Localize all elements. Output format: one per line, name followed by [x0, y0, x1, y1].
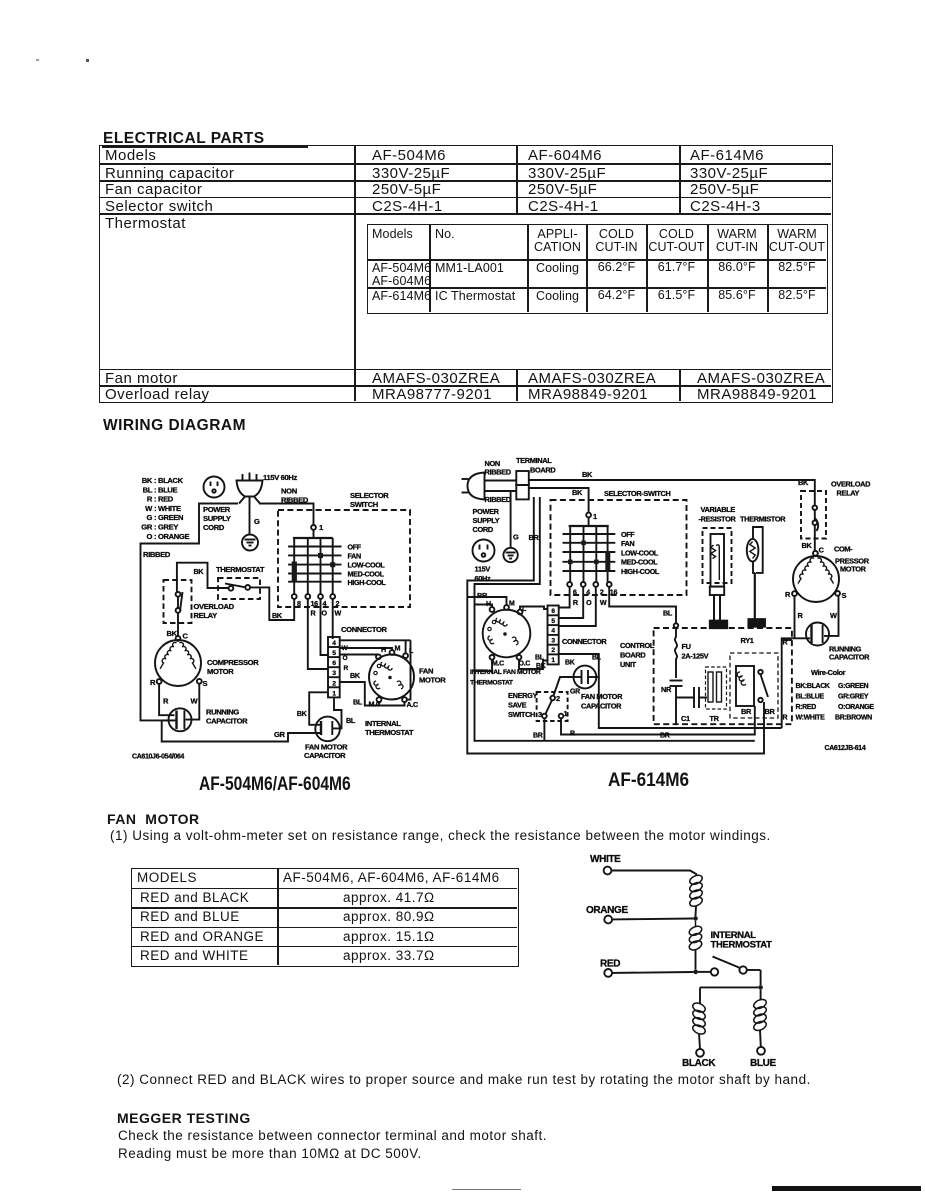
WIRING DIAGRAM heading — [103, 417, 246, 435]
svg-text:OVERLOAD: OVERLOAD — [831, 480, 871, 489]
wire plug to ground — [510, 491, 512, 548]
wire thermistor/board to R bus — [782, 639, 792, 641]
svg-text:BK: BK — [142, 476, 153, 485]
svg-text:: BLUE: : BLUE — [154, 485, 177, 494]
svg-text:CAPACITOR: CAPACITOR — [581, 702, 622, 711]
svg-text:GR:GREY: GR:GREY — [838, 694, 869, 701]
svg-text:BK: BK — [582, 470, 593, 479]
wire connector BK to M.C and A.C — [340, 682, 405, 706]
svg-text:LOW-COOL: LOW-COOL — [621, 548, 659, 557]
thermostat switch contacts — [229, 586, 234, 591]
svg-text:MOTOR: MOTOR — [840, 565, 867, 574]
svg-text:W: W — [600, 598, 607, 607]
selector switch dashed box — [278, 510, 410, 607]
fuse FU — [675, 628, 677, 663]
bottom grey wire to fan motor capacitor — [162, 720, 321, 741]
svg-text:-RESISTOR: -RESISTOR — [699, 515, 737, 524]
capacitor C1 — [677, 687, 708, 708]
svg-text:HIGH-COOL: HIGH-COOL — [348, 578, 387, 587]
svg-text:WHITE: WHITE — [590, 854, 621, 865]
svg-text:3: 3 — [551, 637, 555, 644]
svg-text:RIBBED: RIBBED — [143, 550, 171, 559]
svg-text:R: R — [783, 640, 788, 647]
svg-text:BK: BK — [194, 567, 205, 576]
terminal BLACK — [696, 1049, 704, 1057]
svg-text:R: R — [783, 715, 788, 722]
svg-text:BL: BL — [535, 655, 545, 662]
svg-text:W: W — [145, 504, 153, 513]
svg-text:SWITCH: SWITCH — [350, 500, 378, 509]
svg-text:THERMOSTAT: THERMOSTAT — [470, 680, 514, 687]
left bus inner wire — [475, 497, 755, 741]
svg-text:RELAY: RELAY — [837, 489, 860, 498]
svg-text:HIGH-COOL: HIGH-COOL — [621, 567, 660, 576]
svg-text:THERMOSTAT: THERMOSTAT — [711, 940, 773, 951]
variable resistor element — [711, 534, 725, 587]
svg-text:BR: BR — [741, 707, 752, 716]
wiring diagram: AF-504M6/AF-604M6 — [130, 452, 475, 804]
svg-text:4: 4 — [551, 628, 555, 635]
svg-text:6: 6 — [551, 608, 555, 615]
winding coil 2 — [688, 921, 703, 952]
wire M.C to inner bus — [475, 660, 493, 671]
svg-text:OFF: OFF — [621, 530, 635, 539]
energy save switch contacts — [550, 696, 555, 701]
selector bottom terminals 6 4 2 16 — [567, 582, 611, 587]
svg-text:BR: BR — [765, 707, 776, 716]
wire capacitor junction down to bus — [599, 677, 782, 728]
wire connector to fan motor capacitor BK — [309, 692, 328, 725]
svg-text:SUPPLY: SUPPLY — [473, 516, 500, 525]
selector terminal 1 — [311, 525, 316, 530]
svg-text:115V 60Hz: 115V 60Hz — [263, 473, 298, 482]
svg-text:FAN MOTOR: FAN MOTOR — [581, 692, 623, 701]
svg-text:O: O — [322, 609, 328, 618]
svg-text:RUNNING: RUNNING — [206, 708, 239, 717]
running capacitor — [162, 708, 192, 731]
wire compressor S to capacitor — [824, 596, 839, 636]
crossbar wire — [700, 986, 758, 988]
power plug — [237, 473, 263, 504]
svg-text:W: W — [830, 611, 837, 620]
left bus outer wire — [467, 497, 764, 754]
svg-text:CONTROL: CONTROL — [620, 641, 655, 650]
svg-text:FAN: FAN — [348, 551, 361, 560]
svg-text:W: W — [191, 697, 199, 706]
svg-text:BK: BK — [572, 488, 583, 497]
node junction orange — [693, 916, 698, 921]
svg-text:TERMINAL: TERMINAL — [516, 456, 552, 465]
svg-text:CAPACITOR: CAPACITOR — [304, 751, 346, 760]
wall outlet icon — [204, 477, 225, 498]
svg-text:R: R — [344, 665, 349, 672]
svg-text:BL: BL — [663, 609, 673, 618]
switch contact marks — [292, 553, 336, 583]
svg-text:POWER: POWER — [473, 507, 500, 516]
fan motor winding diagram — [540, 845, 795, 1075]
svg-text:FAN: FAN — [621, 539, 634, 548]
svg-text:G:GREEN: G:GREEN — [838, 683, 869, 690]
switch contact marks — [568, 541, 610, 572]
ground symbol — [242, 535, 258, 551]
selector terminal 1 — [586, 513, 591, 518]
svg-text:4: 4 — [586, 588, 590, 597]
energy save switch dashed box — [537, 692, 568, 721]
wire white to coil — [611, 871, 697, 875]
svg-text:CA612JB-614: CA612JB-614 — [825, 745, 866, 752]
selector switch dashed box — [551, 500, 687, 595]
FAN MOTOR section — [107, 811, 200, 827]
wire selector 6 to connector — [559, 587, 570, 608]
svg-text:BL:BLUE: BL:BLUE — [796, 694, 825, 701]
svg-text:LOW-COOL: LOW-COOL — [348, 561, 386, 570]
svg-text:R: R — [311, 609, 317, 618]
main table borders — [99, 145, 833, 403]
wire plug to selector terminal 1 — [259, 504, 314, 526]
NR element — [670, 681, 683, 725]
wire to right junction — [760, 970, 762, 985]
svg-text:1: 1 — [332, 690, 336, 697]
wire selector 4 to connector — [559, 587, 584, 618]
winding coil 1 — [688, 873, 703, 908]
svg-text:BLUE: BLUE — [750, 1058, 777, 1069]
power cord wire to ground — [249, 497, 251, 535]
svg-text:OFF: OFF — [348, 543, 362, 552]
selector grid — [563, 526, 616, 582]
svg-text:INTERNAL: INTERNAL — [365, 719, 401, 728]
ELECTRICAL PARTS heading — [103, 130, 265, 148]
compressor motor — [792, 551, 840, 602]
thermistor — [747, 527, 765, 627]
svg-text:M.C: M.C — [492, 661, 504, 668]
svg-text:L: L — [409, 646, 414, 655]
svg-text:BK: BK — [802, 541, 813, 550]
wire connector to fan motor M — [340, 648, 392, 650]
svg-text:BL: BL — [346, 716, 356, 725]
svg-text:R: R — [798, 611, 804, 620]
svg-text:CAPACITOR: CAPACITOR — [206, 717, 248, 726]
svg-text:CORD: CORD — [473, 525, 494, 534]
ground symbol — [503, 548, 517, 562]
svg-text:BK:BLACK: BK:BLACK — [796, 683, 830, 690]
svg-text:ORANGE: ORANGE — [586, 905, 628, 916]
svg-text:SELECTOR: SELECTOR — [350, 491, 389, 500]
svg-text:S: S — [203, 679, 208, 688]
wire compressor R to running capacitor — [159, 684, 174, 715]
svg-text:: WHITE: : WHITE — [154, 504, 181, 513]
selector switch grid — [288, 538, 341, 594]
wire M to outer bus — [467, 597, 506, 605]
svg-text:A.C: A.C — [407, 700, 418, 709]
wire thermostat to selector terminal 8 — [250, 587, 294, 620]
MEGGER TESTING — [117, 1110, 251, 1126]
svg-text:CAPACITOR: CAPACITOR — [829, 653, 870, 662]
svg-text:ENERGY: ENERGY — [508, 691, 538, 700]
svg-text:GR: GR — [570, 689, 580, 696]
terminal ORANGE — [604, 916, 612, 924]
svg-text:O: O — [586, 598, 592, 607]
wire down to coil 3 — [699, 987, 701, 1003]
wire fan motor capacitor BL to connector — [332, 697, 341, 728]
svg-text:M: M — [395, 644, 401, 653]
wire switch 1 to control board — [561, 716, 755, 735]
svg-text:6: 6 — [573, 588, 577, 597]
wire coil2 to red junction — [695, 949, 697, 969]
svg-text:C: C — [183, 632, 189, 641]
wire selector 16 to fuse (BL) — [609, 587, 676, 623]
wiring diagram: AF-614M6 — [458, 440, 925, 765]
thermostat dashed box — [218, 578, 260, 599]
svg-text:BOARD: BOARD — [530, 466, 556, 475]
svg-text:1: 1 — [551, 657, 555, 664]
svg-text:BK: BK — [297, 709, 308, 718]
overload relay dashed box — [801, 491, 826, 539]
svg-text:16: 16 — [610, 588, 618, 597]
wire selector R to connector — [308, 599, 328, 669]
wire selector O to connector — [321, 599, 329, 655]
svg-text:4: 4 — [323, 599, 327, 608]
svg-text:RELAY: RELAY — [194, 611, 218, 620]
svg-text:BR: BR — [533, 733, 543, 740]
svg-text:2: 2 — [332, 680, 336, 687]
svg-text:BL: BL — [353, 698, 363, 707]
fan motor resistance table — [131, 868, 519, 967]
svg-text:SWITCH: SWITCH — [508, 710, 535, 719]
svg-text:60Hz: 60Hz — [475, 574, 492, 583]
svg-text:1: 1 — [319, 523, 324, 532]
svg-text:C1: C1 — [681, 714, 690, 723]
main table text — [105, 148, 156, 163]
svg-text:R: R — [150, 678, 156, 687]
internal thermostat switch — [698, 957, 761, 976]
svg-text:OVERLOAD: OVERLOAD — [194, 602, 235, 611]
svg-text:1: 1 — [593, 512, 597, 521]
svg-text:R: R — [570, 731, 575, 738]
svg-text:BR: BR — [660, 733, 670, 740]
svg-text:2: 2 — [556, 694, 560, 703]
svg-text:UNIT: UNIT — [620, 660, 637, 669]
wire coil3 to black terminal — [699, 1034, 700, 1049]
svg-text:6: 6 — [332, 660, 336, 667]
svg-text:R: R — [147, 495, 153, 504]
svg-text:R: R — [573, 598, 579, 607]
svg-text:: BLACK: : BLACK — [154, 476, 184, 485]
svg-text:RED: RED — [600, 959, 620, 970]
svg-text:BLACK: BLACK — [682, 1058, 716, 1069]
wire connector to fan motor L and A.C — [340, 640, 411, 699]
wire overload to thermostat — [177, 563, 229, 592]
svg-text:Wire-Color: Wire-Color — [811, 668, 846, 677]
svg-text:W:WHITE: W:WHITE — [796, 715, 826, 722]
svg-text:C: C — [819, 546, 825, 555]
svg-text:W: W — [335, 609, 342, 618]
terminal board — [516, 471, 529, 499]
svg-text:16: 16 — [311, 599, 319, 608]
svg-text:G: G — [254, 517, 260, 526]
running capacitor — [806, 623, 829, 646]
TR resistors — [706, 667, 727, 709]
wire compressor R to capacitor and bus — [782, 596, 810, 728]
svg-text:CONNECTOR: CONNECTOR — [562, 637, 607, 646]
terminal WHITE — [604, 867, 612, 875]
variable resistor dashed box — [703, 528, 732, 583]
wall outlet icon — [473, 540, 495, 562]
svg-text:2: 2 — [551, 647, 555, 654]
wire connector to fan motor H — [340, 654, 379, 656]
page speck dots — [36, 59, 39, 61]
svg-text:BK: BK — [536, 663, 546, 670]
caption right diagram — [608, 769, 689, 792]
svg-text:FU: FU — [682, 642, 691, 651]
svg-text:COMPRESSOR: COMPRESSOR — [207, 658, 259, 667]
compressor motor — [155, 636, 202, 686]
wire orange to junction — [612, 918, 693, 921]
svg-text:115V: 115V — [475, 565, 491, 574]
wire overload to compressor C — [177, 613, 179, 636]
svg-text:MOTOR: MOTOR — [207, 667, 234, 676]
svg-text:5: 5 — [551, 618, 555, 625]
fan motor capacitor — [574, 666, 597, 689]
svg-text:R: R — [163, 697, 169, 706]
svg-text:VARIABLE: VARIABLE — [701, 505, 736, 514]
svg-text:THERMOSTAT: THERMOSTAT — [365, 728, 414, 737]
power plug (sideways) — [462, 473, 485, 500]
relay RY1 — [730, 653, 778, 718]
svg-text:: ORANGE: : ORANGE — [154, 532, 189, 541]
terminal RED — [604, 969, 612, 977]
internal fan motor — [483, 605, 531, 660]
connector block — [548, 606, 559, 665]
svg-text:O:ORANGE: O:ORANGE — [838, 704, 874, 711]
svg-text:TR: TR — [710, 714, 720, 723]
wire coil4 to blue terminal — [759, 1030, 762, 1047]
svg-text:RY1: RY1 — [741, 636, 754, 645]
terminal BLUE — [757, 1047, 765, 1055]
svg-text:BOARD: BOARD — [620, 651, 646, 660]
svg-text:3: 3 — [538, 710, 542, 719]
svg-text:R: R — [785, 590, 791, 599]
svg-text:GR: GR — [274, 730, 286, 739]
svg-text:BR: BR — [477, 591, 488, 600]
node BL at control board — [674, 623, 678, 627]
svg-text:THERMOSTAT: THERMOSTAT — [216, 565, 265, 574]
svg-text:G: G — [146, 513, 152, 522]
svg-text:RIBBED: RIBBED — [485, 495, 512, 504]
svg-text:CA610J6-054/064: CA610J6-054/064 — [132, 754, 184, 761]
svg-text:M.C: M.C — [369, 700, 381, 709]
svg-text:MED-COOL: MED-COOL — [621, 558, 658, 567]
wire L to connector — [520, 607, 548, 610]
svg-text:O.C: O.C — [519, 661, 531, 668]
wire terminal board to overload (BK) — [529, 480, 815, 491]
svg-text:4: 4 — [332, 640, 336, 647]
svg-text:BK: BK — [350, 671, 361, 680]
svg-text:G: G — [513, 533, 519, 542]
wire red to junction — [612, 971, 693, 974]
wire junction to coil 4 — [760, 990, 762, 1000]
wires plug to terminal board — [485, 480, 517, 482]
fan motor capacitor — [315, 717, 340, 742]
winding coil 4 — [752, 998, 767, 1033]
svg-text:CORD: CORD — [203, 523, 225, 532]
svg-text:NON: NON — [281, 487, 297, 496]
wire O.C to connector — [519, 660, 548, 669]
svg-text:S: S — [842, 591, 847, 600]
svg-text:2: 2 — [600, 588, 604, 597]
svg-text:THERMISTOR: THERMISTOR — [740, 515, 786, 524]
svg-text:R:RED: R:RED — [796, 704, 817, 711]
svg-text:POWER: POWER — [203, 505, 231, 514]
wire capacitor to energy save switch — [554, 677, 574, 696]
svg-text:O: O — [343, 655, 348, 662]
overload relay dashed box — [164, 580, 192, 623]
node junction red — [693, 970, 698, 975]
svg-text:SAVE: SAVE — [508, 701, 527, 710]
svg-text:2A-125V: 2A-125V — [682, 652, 709, 661]
svg-text:CONNECTOR: CONNECTOR — [341, 625, 388, 634]
svg-text:RIBBED: RIBBED — [485, 468, 512, 477]
svg-text:: GREEN: : GREEN — [154, 513, 183, 522]
wire compressor S to running capacitor — [186, 684, 200, 720]
svg-text:SUPPLY: SUPPLY — [203, 514, 231, 523]
overload relay contacts — [813, 491, 819, 551]
svg-text:BL: BL — [592, 655, 602, 662]
overload relay contacts — [176, 592, 181, 597]
wire H to inner bus — [475, 605, 493, 608]
svg-text:O: O — [146, 532, 152, 541]
wire selector W to connector — [332, 599, 334, 639]
svg-text:2: 2 — [336, 599, 340, 608]
selector bottom terminals 8 16 4 2 — [292, 594, 335, 599]
control board unit dashed box — [654, 628, 792, 724]
svg-text:5: 5 — [332, 650, 336, 657]
svg-text:3: 3 — [332, 670, 336, 677]
wire plug to left bus — [141, 504, 239, 721]
wire capacitor right up to connector cell2 — [559, 654, 599, 677]
winding coil 3 — [691, 1001, 706, 1036]
svg-text:FAN: FAN — [419, 667, 433, 676]
wire selector 2 to connector — [559, 587, 596, 626]
connector block — [328, 637, 340, 697]
svg-text:SELECTOR-SWITCH: SELECTOR-SWITCH — [604, 489, 670, 498]
svg-text:: RED: : RED — [154, 495, 174, 504]
svg-text:BK: BK — [272, 611, 283, 620]
svg-text:: GREY: : GREY — [154, 523, 178, 532]
wire terminal board to selector terminal 1 — [529, 488, 589, 513]
svg-text:8: 8 — [297, 599, 301, 608]
wire switch 3 down to bus — [543, 718, 545, 741]
variable resistor pedestal — [710, 587, 727, 629]
svg-text:BR:BROWN: BR:BROWN — [835, 715, 872, 722]
inner thermostat table — [367, 224, 828, 314]
wire coil1 to junction — [695, 906, 698, 916]
svg-text:M: M — [509, 601, 515, 608]
bottom scan marks — [452, 1189, 521, 1190]
svg-text:BK: BK — [565, 660, 575, 667]
svg-text:BL: BL — [143, 485, 153, 494]
fan motor — [369, 650, 414, 702]
node right junction — [758, 985, 763, 990]
svg-text:GR: GR — [141, 523, 153, 532]
caption left diagram — [199, 773, 351, 796]
svg-text:H: H — [381, 645, 386, 654]
svg-text:MOTOR: MOTOR — [419, 676, 446, 685]
svg-text:COM-: COM- — [834, 545, 853, 554]
